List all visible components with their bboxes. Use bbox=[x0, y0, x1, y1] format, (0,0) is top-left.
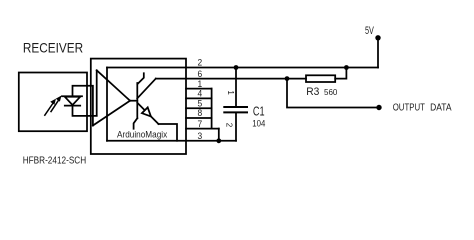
svg-text:8: 8 bbox=[198, 108, 203, 118]
svg-text:1: 1 bbox=[198, 79, 203, 89]
resistor R3 body bbox=[306, 75, 335, 82]
wire pins 1458 bus bbox=[211, 89, 213, 129]
svg-text:2: 2 bbox=[225, 123, 234, 128]
wire R3 right lead bbox=[335, 68, 346, 79]
junction R3 to pin2 net bbox=[344, 65, 349, 70]
wire cathode lead down bbox=[73, 106, 97, 116]
transistor Q1 base bar bbox=[136, 83, 138, 118]
wire pin 2 net (inner box top to 5V riser) bbox=[107, 67, 378, 69]
pin 5 stub bbox=[186, 107, 212, 109]
wire 5V riser bbox=[377, 38, 379, 68]
junction cap to pin2 net bbox=[234, 65, 239, 70]
pin 4 stub bbox=[186, 97, 212, 99]
svg-text:2: 2 bbox=[198, 58, 203, 68]
svg-text:ArduinoMagix: ArduinoMagix bbox=[117, 130, 167, 141]
inner box top-right segment bbox=[159, 124, 178, 141]
capacitor C1 bottom lead bbox=[235, 112, 237, 140]
svg-text:OUTPUT: OUTPUT bbox=[393, 102, 425, 113]
transistor Q1 collector bbox=[137, 79, 156, 99]
pin 7 stub bbox=[186, 128, 219, 130]
terminal 5V bbox=[375, 35, 380, 40]
IC U1 big box bbox=[91, 59, 186, 154]
op-amp A1 top slant bbox=[97, 70, 130, 100]
svg-text:RECEIVER: RECEIVER bbox=[23, 40, 83, 55]
capacitor C1 top plate bbox=[224, 106, 247, 108]
svg-text:4: 4 bbox=[198, 89, 203, 99]
svg-text:560: 560 bbox=[324, 87, 338, 97]
junction output branch bbox=[285, 76, 290, 81]
wire anode lead up and bracket bbox=[73, 86, 93, 126]
light arrow 2 bbox=[51, 101, 58, 112]
junction pin7-pin3 bbox=[216, 138, 221, 143]
svg-text:6: 6 bbox=[198, 69, 203, 79]
inner box left edge bbox=[106, 68, 108, 141]
wire pin 3 net (inner box bottom to capacitor) bbox=[107, 140, 236, 142]
terminal output data bbox=[376, 105, 381, 110]
capacitor C1 bottom plate bbox=[224, 111, 247, 113]
svg-text:104: 104 bbox=[252, 118, 265, 128]
transistor Q1 base bottom kink bbox=[134, 118, 138, 129]
receiver module outer box bbox=[19, 73, 87, 132]
pin 8 stub bbox=[186, 117, 212, 119]
photodiode D1 cathode bar bbox=[65, 105, 80, 107]
op-amp A1 left edge bbox=[96, 70, 98, 115]
svg-text:C1: C1 bbox=[253, 104, 265, 119]
pin 1 stub bbox=[186, 88, 212, 90]
svg-text:HFBR-2412-SCH: HFBR-2412-SCH bbox=[23, 156, 86, 167]
svg-text:DATA: DATA bbox=[430, 102, 452, 113]
wire amp apex to base bbox=[130, 100, 137, 102]
svg-text:5: 5 bbox=[198, 98, 203, 108]
svg-text:1: 1 bbox=[226, 90, 235, 95]
wire output branch down bbox=[287, 79, 379, 108]
svg-text:3: 3 bbox=[198, 131, 203, 141]
svg-text:R3: R3 bbox=[306, 86, 319, 98]
photodiode D1 anode bar bbox=[62, 95, 82, 97]
wire pin 7 drop bbox=[218, 129, 220, 141]
svg-text:7: 7 bbox=[198, 119, 203, 129]
capacitor C1 top lead bbox=[235, 68, 237, 108]
transistor Q1 emitter bbox=[137, 103, 158, 124]
photodiode D1 triangle bbox=[65, 97, 80, 105]
light arrow 1 bbox=[45, 104, 53, 116]
transistor Q1 emitter arrow bbox=[142, 107, 151, 116]
wire bracket diagonal to amp apex bbox=[93, 101, 130, 126]
transistor Q1 top stub bbox=[138, 73, 144, 84]
svg-text:5V: 5V bbox=[365, 25, 374, 37]
wire pin 6 net (collector to R3) bbox=[156, 78, 306, 80]
